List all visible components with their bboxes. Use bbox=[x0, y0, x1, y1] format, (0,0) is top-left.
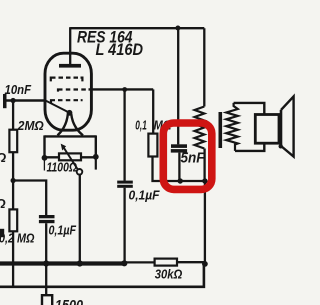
resistor R4 30kOhm body bbox=[155, 259, 177, 266]
potentiometer wiper arrow bbox=[63, 147, 78, 170]
node: bus junction left 0,1uF / 1500 bbox=[43, 260, 49, 266]
capacitor C1 10nF plate (cut off at left edge) bbox=[3, 94, 7, 108]
capacitor C4 5nF plates (highlighted) bbox=[171, 144, 187, 148]
node: right end of 1100 Ohm row bbox=[93, 154, 99, 160]
svg-text:L 416D: L 416D bbox=[96, 41, 144, 59]
wire: branch from node to left 0,1uF capacitor bbox=[13, 181, 46, 216]
wire: 0,2MOhm bottom lead down to lower bus bbox=[12, 231, 14, 286]
node: junction 2MOhm / 0,2MOhm / coupling wire bbox=[11, 178, 16, 183]
wire: anode bus corner down to transformer primary bbox=[203, 28, 205, 106]
wire: primary bottom lead bbox=[203, 149, 205, 182]
tube grid g1 (dashed, hooked left end) bbox=[51, 100, 83, 103]
wire: bottom link 5nF / transformer primary bbox=[180, 180, 205, 182]
wire: 2MOhm top lead bbox=[12, 101, 14, 130]
wire: input grid wire from 10nF to tube bbox=[7, 99, 47, 101]
wire: 2MOhm bottom lead bbox=[12, 152, 14, 180]
wire: primary junction down to 30k node bbox=[204, 181, 206, 264]
wire: tube anode lead (top cap) bbox=[69, 27, 71, 64]
speaker cone corner blob bbox=[279, 144, 283, 148]
wire: ground bus (thick) bbox=[0, 261, 125, 265]
svg-text:2MΩ: 2MΩ bbox=[17, 118, 44, 133]
wire: small tick below left dot bbox=[43, 158, 45, 171]
wire: secondary bottom loop to speaker bbox=[235, 143, 264, 151]
resistor R5 1500 body (cut off at bottom edge) bbox=[42, 295, 52, 305]
wire: wiper lead down to ground bus bbox=[79, 175, 81, 264]
wire: filament frame right side bbox=[95, 135, 97, 156]
node: bus junction wiper lead bbox=[77, 260, 83, 266]
svg-text:0,1: 0,1 bbox=[135, 119, 147, 133]
svg-text:Ω: Ω bbox=[0, 196, 6, 211]
svg-text:10nF: 10nF bbox=[5, 82, 32, 97]
wire: row connecting dots through potentiometer bbox=[45, 156, 96, 158]
node: left end of 1100 Ohm row bbox=[42, 155, 48, 161]
resistor R3 0,1MOhm body bbox=[148, 134, 157, 157]
capacitor C2 0,1uF (left) plates bbox=[39, 215, 55, 218]
svg-text:5nF: 5nF bbox=[181, 149, 206, 166]
svg-text:0,1µF: 0,1µF bbox=[129, 189, 160, 203]
speaker LS1 driver box bbox=[255, 115, 279, 144]
potentiometer wiper terminal circle bbox=[77, 169, 83, 175]
wire: filament frame top line bbox=[45, 135, 96, 137]
speaker cone horn bbox=[281, 96, 294, 156]
tube grid g3 (dashed, hooked ends) bbox=[51, 78, 83, 82]
svg-text:30kΩ: 30kΩ bbox=[155, 268, 183, 282]
resistor R1 2MOhm body bbox=[9, 130, 17, 153]
svg-text:1500: 1500 bbox=[55, 298, 83, 305]
svg-text:0,2 MΩ: 0,2 MΩ bbox=[0, 231, 35, 246]
node: junction of top wire and 5nF branch bbox=[175, 26, 180, 31]
svg-text:0,1µF: 0,1µF bbox=[49, 224, 77, 238]
inductor L1 output transformer primary winding bbox=[195, 107, 205, 149]
wire: 30k right lead bbox=[177, 261, 205, 263]
tube cathode diagonal lead bbox=[46, 101, 68, 112]
node: junction input wire / 2MOhm bbox=[11, 98, 16, 103]
wire: 5nF top lead from anode bus bbox=[177, 28, 179, 144]
potentiometer P1 1100 Ohm body bbox=[59, 153, 81, 160]
capacitor C3 0,1uF (middle) plates bbox=[117, 181, 133, 184]
fragment: cut-off component mark at left edge bbox=[0, 229, 4, 237]
node: junction 5nF bottom bbox=[178, 178, 183, 183]
speaker cone back edge bbox=[280, 110, 283, 146]
tube U1 envelope (RES 164) bbox=[45, 53, 91, 130]
svg-text:Ω: Ω bbox=[0, 150, 6, 165]
red highlight box around 5nF capacitor bbox=[163, 123, 212, 189]
tube filament bell bbox=[58, 114, 84, 136]
node: junction screen wire / 0,1uF branch bbox=[122, 87, 127, 92]
wire: 0,1MOhm bottom lead with corner bbox=[153, 157, 181, 182]
wire: lead from ground bus to 1500 resistor bbox=[45, 264, 47, 296]
wire: middle branch down to 0,1uF capacitor bbox=[123, 90, 125, 181]
wire: bus to 30k resistor bbox=[124, 261, 154, 263]
wire: left 0,1uF bottom lead to ground bus bbox=[45, 223, 47, 263]
tube filament apex ball bbox=[67, 110, 73, 116]
wire: filament frame left side bbox=[43, 135, 45, 158]
wire: lower return bus with corner up bbox=[0, 264, 204, 287]
node: junction primary bottom bbox=[202, 178, 207, 183]
node: junction 30k / primary branch / lower bus bbox=[202, 261, 208, 267]
inductor L2 output transformer secondary winding bbox=[226, 103, 238, 151]
wire: secondary top loop to speaker bbox=[234, 103, 265, 115]
wire: small stub below right dot bbox=[95, 157, 97, 170]
wire: middle 0,1uF bottom lead to ground bus bbox=[123, 188, 125, 262]
wire: 0,1MOhm top lead bbox=[152, 89, 154, 133]
tube anode plate bar bbox=[59, 64, 81, 68]
wire: anode top bus from tube plate to transformer branch bbox=[70, 27, 204, 29]
svg-text:1100Ω: 1100Ω bbox=[47, 160, 78, 175]
transformer core bar bbox=[219, 112, 223, 148]
wire: 0,2MOhm top lead bbox=[12, 181, 14, 210]
tube grid g2 (dashed) bbox=[58, 90, 86, 92]
resistor R2 0,2MOhm body bbox=[9, 209, 17, 231]
wire: 5nF bottom lead bbox=[178, 153, 180, 181]
wire: screen grid wire from tube to 0,1MOhm branch bbox=[89, 88, 154, 90]
node: bus junction middle 0,1uF / 30k bbox=[121, 260, 127, 266]
